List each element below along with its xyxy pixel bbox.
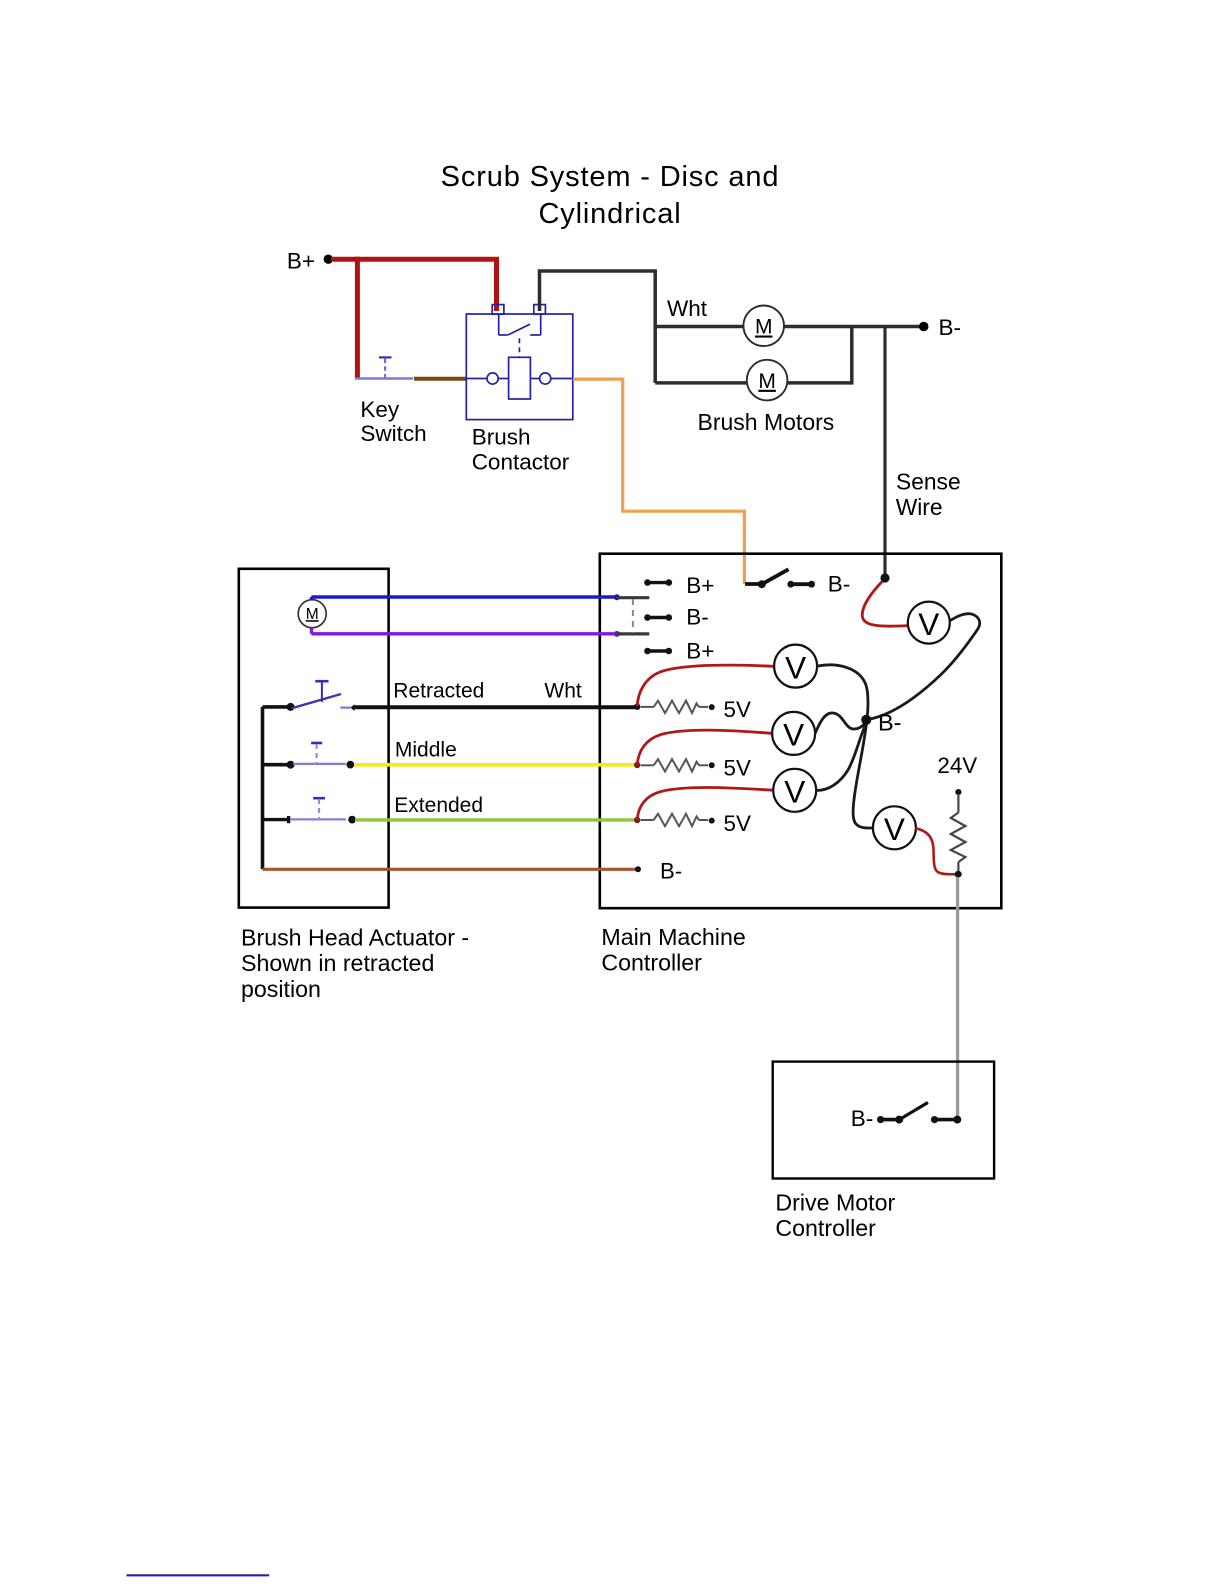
node B- (top right) — [919, 322, 929, 332]
wire brown B- bottom — [263, 868, 639, 871]
dashed link — [632, 599, 634, 633]
svg-text:5V: 5V — [724, 756, 751, 781]
svg-text:24V: 24V — [937, 753, 977, 778]
red curve sense to voltmeter — [862, 581, 907, 626]
svg-text:B-: B- — [878, 709, 902, 735]
svg-text:Brush Head Actuator -: Brush Head Actuator - — [241, 925, 469, 951]
sense dot — [880, 573, 889, 582]
black curve junction to V4 — [853, 722, 873, 828]
terminal B+ row1 — [644, 579, 672, 586]
svg-text:B+: B+ — [686, 638, 714, 663]
drive motor controller box — [773, 1062, 994, 1179]
svg-text:B-: B- — [828, 571, 851, 596]
wire gray stub purple row — [617, 632, 649, 635]
terminal B+ row3 — [644, 648, 672, 655]
sense wire — [883, 327, 886, 579]
wire B+ branch to key switch — [355, 257, 360, 379]
svg-text:B+: B+ — [287, 249, 315, 274]
voltmeter V-top — [908, 602, 950, 644]
svg-text:B-: B- — [686, 605, 709, 630]
actuator motor M3 — [298, 600, 326, 628]
controller input switch — [745, 569, 815, 588]
svg-text:Scrub System - Disc and: Scrub System - Disc and — [441, 161, 780, 193]
wire Wht black to controller — [354, 705, 636, 709]
svg-text:Controller: Controller — [775, 1215, 876, 1241]
svg-text:Controller: Controller — [601, 950, 702, 976]
key switch KS1 — [355, 357, 413, 378]
svg-text:Wire: Wire — [896, 494, 943, 520]
black curve V3 to junction — [816, 722, 867, 790]
svg-text:Key: Key — [360, 397, 400, 422]
svg-text:Drive Motor: Drive Motor — [775, 1190, 895, 1216]
svg-text:Extended: Extended — [394, 794, 483, 817]
red curve V4 to 24V resistor — [916, 828, 956, 874]
black curve V1 to junction — [817, 665, 868, 718]
svg-text:V: V — [884, 811, 905, 847]
svg-text:M: M — [755, 316, 773, 339]
wire Wht row to motor M1 — [655, 325, 743, 329]
resistor R4 vertical — [951, 813, 966, 863]
svg-text:M: M — [758, 370, 776, 393]
svg-text:V: V — [918, 606, 939, 642]
row Retracted: black stub + switch — [263, 681, 355, 711]
svg-text:Middle: Middle — [395, 739, 457, 762]
svg-text:Retracted: Retracted — [393, 679, 484, 702]
svg-text:V: V — [785, 649, 806, 685]
voltmeter V1 — [774, 645, 817, 688]
svg-text:Brush Motors: Brush Motors — [698, 409, 835, 435]
svg-text:B-: B- — [939, 315, 962, 340]
wire gray stub blue row — [617, 596, 649, 599]
voltmeter V2 — [772, 712, 815, 755]
resistor R1 row — [641, 701, 708, 713]
voltmeter V3 — [773, 769, 816, 812]
svg-text:Sense: Sense — [896, 469, 961, 495]
wire brown key->contactor — [414, 377, 466, 381]
wire B+ red feed — [331, 259, 497, 311]
svg-text:B-: B- — [660, 859, 682, 884]
svg-text:Wht: Wht — [667, 296, 708, 321]
brush motor M2 — [747, 360, 788, 401]
svg-text:B+: B+ — [686, 573, 714, 598]
wire purple actuator motor — [311, 632, 616, 635]
main machine controller box — [600, 554, 1002, 909]
black curve V2 to junction — [815, 713, 867, 733]
resistor R2 row — [641, 759, 708, 771]
resistor R3 row — [641, 814, 708, 826]
voltmeter V4 — [873, 806, 916, 849]
row Extended — [263, 798, 357, 823]
red curve row1 to V1 — [637, 665, 773, 706]
brush contactor K1 — [466, 305, 573, 420]
row Middle — [263, 743, 355, 769]
svg-text:Main Machine: Main Machine — [601, 924, 745, 950]
svg-text:B-: B- — [851, 1106, 874, 1131]
svg-text:5V: 5V — [724, 697, 751, 722]
svg-text:Brush: Brush — [472, 425, 531, 450]
red curve row3 to V3 — [637, 788, 772, 820]
black loop V-top to junction — [868, 614, 979, 720]
footer line — [127, 1574, 270, 1576]
svg-text:Switch: Switch — [360, 421, 426, 446]
svg-text:5V: 5V — [724, 811, 751, 836]
wire black contactor top to motors — [540, 271, 656, 383]
svg-text:Contactor: Contactor — [472, 450, 570, 475]
brush head actuator box — [239, 569, 389, 908]
wire yellow — [354, 763, 636, 767]
svg-text:M: M — [306, 606, 319, 623]
svg-text:position: position — [241, 976, 321, 1002]
red curve row2 to V2 — [637, 730, 771, 765]
svg-text:Cylindrical: Cylindrical — [538, 198, 681, 230]
terminal B- row2 — [644, 614, 672, 621]
wire blue actuator motor — [311, 595, 616, 598]
node B- junction — [861, 715, 871, 725]
svg-text:V: V — [783, 717, 804, 753]
wire M2 right + up join — [788, 327, 852, 383]
svg-text:Wht: Wht — [544, 679, 582, 702]
svg-text:V: V — [784, 774, 805, 810]
wire row2 to motor M2 — [655, 381, 747, 385]
svg-text:Shown in retracted: Shown in retracted — [241, 950, 434, 976]
wire green — [355, 818, 636, 821]
brush motor M1 — [743, 306, 784, 347]
gray wire to drive controller — [956, 877, 959, 1119]
wire orange contactor->controller — [573, 379, 745, 584]
actuator bus vertical — [261, 707, 265, 869]
wire M1 to B- dot — [784, 325, 921, 329]
